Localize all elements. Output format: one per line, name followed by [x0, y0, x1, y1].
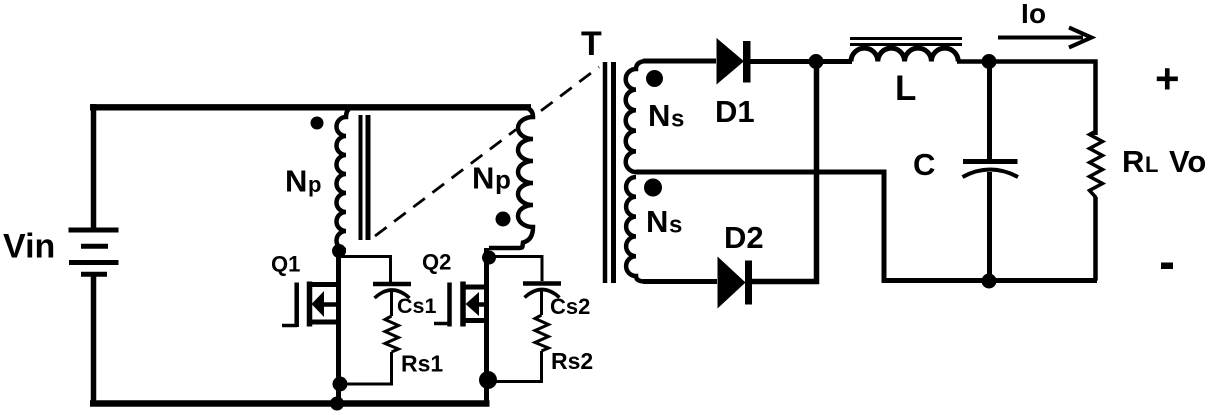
label Q2	[422, 250, 451, 275]
node junction rectifier output	[809, 54, 824, 69]
svg-text:N: N	[472, 161, 494, 196]
wire center tap return	[636, 172, 1097, 281]
svg-text:N: N	[646, 204, 668, 239]
label Cs1	[397, 294, 436, 318]
dashed transformer link	[375, 67, 599, 236]
label L	[895, 69, 916, 108]
transistor Q2	[434, 282, 487, 327]
resistor Rs2	[535, 315, 549, 351]
svg-text:C: C	[913, 147, 935, 182]
svg-text:Cs1: Cs1	[397, 294, 436, 318]
label Np right	[472, 161, 511, 196]
wire inductor to output top	[957, 62, 1096, 136]
node junction cap bottom	[982, 274, 997, 289]
wire snubber 1 bottom	[341, 352, 392, 384]
capacitor Cs1	[373, 284, 411, 316]
label Ns top	[648, 98, 684, 133]
transistor Q1	[282, 282, 339, 328]
polarity dot Ns bottom	[644, 179, 662, 197]
label Vin	[3, 228, 55, 266]
label Np left	[285, 164, 321, 199]
transformer secondary winding Ns (top)	[626, 61, 645, 172]
wire D1 to junction	[750, 59, 816, 64]
label Io	[1021, 0, 1046, 29]
diode D2	[718, 257, 753, 309]
label C	[913, 147, 935, 182]
transformer primary winding Np (left)	[337, 108, 353, 251]
svg-text:R: R	[1122, 144, 1144, 179]
svg-text:o: o	[1029, 0, 1046, 29]
wire snubber 2 bottom	[490, 351, 542, 382]
label Rs2	[551, 348, 593, 374]
battery Vin	[69, 230, 119, 274]
diode D1	[717, 38, 751, 85]
svg-text:Vo: Vo	[1169, 144, 1206, 179]
svg-text:D1: D1	[715, 94, 755, 129]
svg-text:D2: D2	[724, 220, 764, 255]
svg-text:T: T	[581, 25, 602, 63]
svg-text:Cs2: Cs2	[550, 294, 590, 319]
svg-text:s: s	[671, 106, 684, 133]
svg-text:Q2: Q2	[422, 250, 451, 275]
wire bottom rail	[90, 400, 490, 407]
node junction Np2 bottom / Q2 drain	[482, 251, 496, 265]
wire Q2 trunk	[484, 248, 489, 404]
resistor RL	[1090, 131, 1103, 281]
polarity dot Np left	[311, 117, 324, 130]
node junction filter cap top	[982, 54, 997, 69]
label D1	[715, 94, 755, 129]
svg-text:Q1: Q1	[271, 252, 300, 277]
transformer primary winding Np (right)	[489, 108, 533, 249]
wire cap branch	[987, 62, 992, 282]
label Q1	[271, 252, 300, 277]
label D2	[724, 220, 764, 255]
polarity dot Ns top	[646, 70, 663, 87]
capacitor C	[963, 162, 1019, 178]
svg-text:L: L	[895, 69, 916, 108]
snubber 1 wires	[339, 257, 391, 283]
svg-text:Rs2: Rs2	[551, 348, 593, 374]
node junction Q1 at bottom rail	[330, 397, 344, 411]
node junction Q2 source	[479, 371, 497, 389]
svg-text:p: p	[495, 165, 511, 195]
label plus	[1155, 55, 1180, 102]
svg-text:Rs1: Rs1	[401, 351, 443, 377]
wire junction to inductor	[816, 59, 852, 64]
arrow Io	[998, 28, 1092, 48]
svg-text:Vin: Vin	[3, 228, 55, 266]
wire top rail	[90, 104, 531, 110]
label Ns bottom	[646, 204, 682, 239]
label T	[581, 25, 602, 63]
snubber 2 wires	[489, 257, 542, 282]
wire D2 to cathode rail	[751, 62, 817, 282]
svg-text:I: I	[1021, 0, 1029, 29]
wire secondary bottom to D2	[643, 279, 717, 284]
polarity dot Np right	[496, 212, 511, 227]
svg-text:+: +	[1155, 55, 1180, 102]
resistor Rs1	[385, 316, 399, 352]
transformer secondary winding Ns (bottom)	[626, 177, 645, 282]
wire secondary top to D1	[643, 59, 716, 64]
svg-text:p: p	[308, 172, 321, 197]
transformer core (primary left)	[361, 115, 369, 240]
label minus	[1161, 263, 1173, 270]
svg-text:N: N	[285, 164, 307, 199]
wire Q1 trunk	[336, 246, 341, 404]
node junction Np1 bottom / Q1 drain	[332, 244, 346, 258]
wire input left vertical	[91, 104, 97, 407]
svg-text:N: N	[648, 98, 670, 133]
node junction Q1 source	[333, 377, 348, 392]
capacitor Cs2	[523, 284, 561, 316]
label Rs1	[401, 351, 443, 377]
label Cs2	[550, 294, 590, 319]
label RL	[1122, 144, 1158, 179]
inductor L	[850, 39, 962, 62]
svg-text:s: s	[669, 212, 682, 239]
svg-text:L: L	[1145, 152, 1158, 177]
label Vo	[1169, 144, 1206, 179]
transformer core (secondary)	[605, 62, 614, 283]
